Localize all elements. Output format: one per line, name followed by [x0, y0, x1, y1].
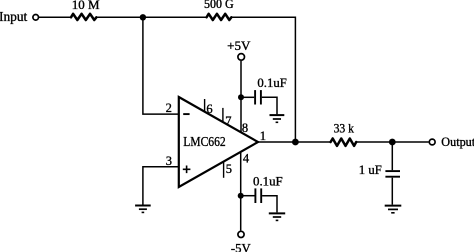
- wire pin 4 down: [240, 152, 242, 231]
- svg-text:LMC662: LMC662: [183, 135, 226, 150]
- pin 5 stub: [223, 161, 225, 178]
- wire C3 to ground: [391, 178, 393, 205]
- wire input to R1: [39, 16, 71, 18]
- node -5V terminal: [238, 231, 244, 237]
- wire node B to R3: [295, 141, 330, 143]
- svg-text:2: 2: [166, 101, 172, 115]
- wire node A to R2: [143, 16, 207, 18]
- node Output terminal: [429, 139, 435, 145]
- ground C2: [269, 213, 285, 220]
- wire node C to output terminal: [392, 141, 428, 143]
- svg-text:+5V: +5V: [227, 39, 250, 53]
- op-amp minus sign: [183, 113, 189, 115]
- wire R1 to node A: [96, 16, 142, 18]
- wire R2 to feedback corner: [231, 17, 295, 142]
- wire C2 to ground: [262, 196, 277, 213]
- pin 6 stub: [204, 99, 206, 112]
- wire op-amp output to node B: [258, 141, 295, 143]
- node A junction: [140, 14, 146, 20]
- resistor R1 10M: [71, 14, 96, 20]
- capacitor C3 1uF: [385, 171, 400, 177]
- op-amp U1 triangle: [179, 97, 258, 187]
- capacitor C1 0.1uF top: [255, 90, 261, 104]
- resistor R3 33k: [331, 139, 357, 146]
- svg-text:33 k: 33 k: [334, 122, 355, 136]
- wire junction to C2: [241, 195, 255, 197]
- op-amp plus sign: [183, 166, 191, 174]
- svg-text:6: 6: [206, 102, 212, 116]
- ground C3: [385, 206, 402, 213]
- resistor R2 500G: [207, 14, 232, 20]
- svg-text:1 uF: 1 uF: [359, 163, 382, 177]
- svg-text:5: 5: [226, 162, 232, 176]
- svg-text:10 M: 10 M: [72, 0, 100, 12]
- wire +5V to pin 8: [240, 61, 242, 132]
- svg-text:4: 4: [243, 152, 250, 166]
- svg-text:1: 1: [260, 129, 266, 143]
- svg-text:0.1uF: 0.1uF: [253, 174, 283, 188]
- node Input terminal: [33, 14, 39, 20]
- svg-text:3: 3: [166, 154, 172, 168]
- svg-text:8: 8: [242, 121, 248, 135]
- ground pin 3: [135, 206, 151, 213]
- node supply top junction: [238, 94, 244, 100]
- node +5V terminal: [238, 54, 245, 61]
- wire node C down to C3: [391, 142, 393, 170]
- svg-text:7: 7: [225, 114, 231, 128]
- svg-text:0.1uF: 0.1uF: [257, 76, 286, 90]
- node B junction: [292, 139, 299, 146]
- wire node A down to pin 2: [143, 17, 179, 114]
- wire pin 3 to ground: [143, 167, 179, 205]
- wire C1 to ground: [262, 97, 277, 114]
- pin 7 stub: [222, 108, 224, 122]
- svg-text:500 G: 500 G: [204, 0, 234, 11]
- svg-text:Input: Input: [0, 9, 28, 24]
- node supply bottom junction: [238, 193, 244, 199]
- node C junction: [389, 139, 396, 146]
- wire R3 to node C: [356, 141, 392, 143]
- svg-text:Output: Output: [441, 135, 474, 149]
- capacitor C2 0.1uF bottom: [255, 188, 261, 203]
- svg-text:-5V: -5V: [231, 241, 251, 252]
- wire junction to C1: [241, 96, 254, 98]
- ground C1: [270, 115, 285, 122]
